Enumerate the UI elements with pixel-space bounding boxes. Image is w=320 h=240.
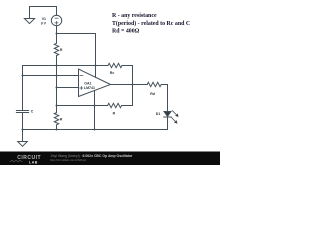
svg-text:D1: D1 [156, 112, 161, 116]
capacitor C [16, 111, 28, 113]
wire [56, 26, 58, 34]
wire (output row) [110, 84, 147, 86]
svg-text:V1: V1 [42, 17, 46, 21]
ground (top left) [29, 7, 31, 19]
svg-text:Rc: Rc [110, 71, 115, 75]
wire (supply stub to op-amp V+) [95, 34, 97, 78]
wire [22, 113, 24, 142]
wire (feedback row) [57, 105, 108, 107]
wire [122, 65, 133, 67]
wire (inverting input row) [23, 75, 79, 77]
svg-text:OA1: OA1 [84, 81, 91, 85]
svg-text:http://circuitlab.com/c/62hq4: http://circuitlab.com/c/62hq4 [50, 158, 86, 162]
junction dots [22, 33, 134, 131]
wire (ground rail) [23, 129, 168, 131]
svg-text:T(period) - related to Rc and: T(period) - related to Rc and C [112, 20, 190, 27]
svg-text:Rd: Rd [150, 92, 155, 96]
wire [122, 105, 133, 107]
svg-text:Zeyi Wang (lolzeyi) : 6.002x C: Zeyi Wang (lolzeyi) : 6.002x CBC Op Amp … [51, 154, 134, 158]
svg-text:LM741: LM741 [84, 86, 95, 90]
op-amp OA1 LM741 [79, 69, 111, 97]
LED D1 [164, 112, 171, 117]
wire [167, 85, 169, 112]
footer banner [0, 152, 220, 166]
wire [56, 7, 58, 16]
svg-text:LAB: LAB [29, 160, 38, 164]
LED light arrows [171, 110, 178, 123]
ground (bottom left) [18, 142, 28, 147]
svg-text:9 V: 9 V [41, 22, 47, 26]
resistor Rc [108, 63, 122, 67]
wire (non-inverting input row) [57, 87, 79, 89]
wire [162, 84, 168, 86]
resistor R (feedback) [108, 103, 122, 107]
wire (top rail) [23, 65, 109, 67]
wire [30, 6, 57, 8]
svg-text:R - any resistance: R - any resistance [112, 13, 157, 19]
resistor R (bottom) [54, 113, 58, 130]
wire (right feedback vertical) [132, 66, 134, 106]
wire [57, 33, 96, 35]
wire (left rail) [22, 66, 24, 111]
voltage source V1 [51, 15, 61, 25]
resistor R (top) [54, 34, 58, 66]
svg-text:Rd = 400Ω: Rd = 400Ω [112, 28, 140, 34]
resistor Rd [147, 82, 161, 86]
wire (op-amp V- stub to ground rail) [94, 91, 96, 130]
wire (middle vertical) [56, 66, 58, 113]
